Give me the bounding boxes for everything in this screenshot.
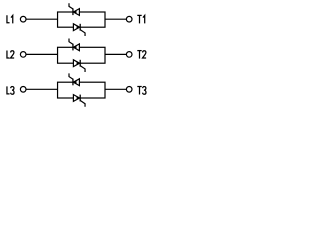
terminal circle T2 xyxy=(126,52,132,58)
wire L3 to module xyxy=(26,88,57,90)
node T2 label xyxy=(137,51,146,59)
gate V2b xyxy=(80,66,85,72)
node T3 label xyxy=(137,87,146,95)
wire L1 to module xyxy=(26,18,57,20)
thyristor V3b (bottom branch, conducts left-to-right) xyxy=(73,95,79,102)
terminal circle T3 xyxy=(126,87,132,93)
gate V1a xyxy=(69,3,73,9)
wire L2 to module xyxy=(26,53,57,55)
gate V1b xyxy=(80,30,85,36)
node L3 label xyxy=(7,86,14,94)
thyristor V1b (bottom branch, conducts left-to-right) xyxy=(73,24,79,31)
thyristor V1a (top branch, conducts right-to-left) xyxy=(73,9,79,16)
module box row 3 xyxy=(58,82,105,98)
wire module to T3 xyxy=(105,88,126,90)
wire module to T2 xyxy=(105,53,126,55)
terminal circle L2 xyxy=(20,52,26,58)
wire module to T1 xyxy=(105,18,126,20)
terminal circle L3 xyxy=(20,87,26,93)
node L2 label xyxy=(7,51,14,58)
cathode bar V1a xyxy=(72,8,74,15)
thyristor V2b (bottom branch, conducts left-to-right) xyxy=(73,60,79,67)
module box row 2 xyxy=(58,47,105,63)
cathode bar V3a xyxy=(72,79,74,86)
gate V3b xyxy=(80,101,85,107)
cathode bar V3b xyxy=(79,95,81,102)
terminal circle T1 xyxy=(126,16,132,22)
cathode bar V1b xyxy=(79,24,81,31)
cathode bar V2a xyxy=(72,44,74,51)
gate V3a xyxy=(69,73,73,79)
terminal circle L1 xyxy=(20,16,26,22)
node T1 label xyxy=(137,15,144,23)
module box row 1 xyxy=(58,12,105,27)
gate V2a xyxy=(69,39,73,45)
node L1 label xyxy=(7,15,13,23)
cathode bar V2b xyxy=(79,60,81,67)
thyristor V3a (top branch, conducts right-to-left) xyxy=(73,79,79,86)
thyristor V2a (top branch, conducts right-to-left) xyxy=(73,44,79,51)
